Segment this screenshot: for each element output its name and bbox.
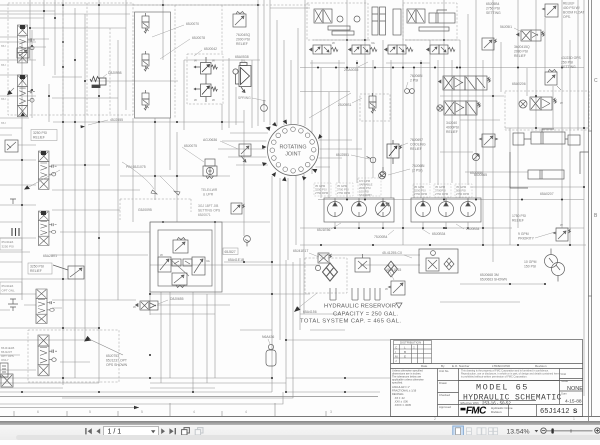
svg-text:RELIEF: RELIEF <box>410 147 422 151</box>
svg-text:FMC: FMC <box>465 406 487 417</box>
sheet right border <box>589 0 592 421</box>
view mode two continuous disabled <box>489 428 498 435</box>
svg-text:65J1237 OPT: 65J1237 OPT <box>106 359 127 363</box>
pump label box 1 <box>314 183 331 196</box>
sheet bottom outer edge <box>0 416 600 418</box>
svg-text:Sum: Sum <box>561 392 567 396</box>
gauge circle mid <box>261 100 268 111</box>
svg-text:65J0663 SHOWN: 65J0663 SHOWN <box>480 278 507 282</box>
winch diagonal line <box>170 259 189 276</box>
reservoir dashed boundary <box>305 258 347 293</box>
label 45-41255-CX <box>382 251 412 258</box>
cluster A crossed valve <box>314 9 332 23</box>
svg-text:LTR/ECO/NO: LTR/ECO/NO <box>492 364 511 368</box>
label 65J0042 <box>194 47 217 56</box>
valve jib setting <box>231 203 245 214</box>
svg-text:.XXX ± .006: .XXX ± .006 <box>394 400 408 404</box>
svg-text:VA: VA <box>371 41 375 45</box>
svg-text:W: W <box>133 305 136 309</box>
relief 65J05B4 labels <box>486 2 501 15</box>
left margin micro labels <box>1 346 14 362</box>
pilot valve 25J05S1 <box>338 98 362 107</box>
svg-text:C: C <box>594 78 598 84</box>
leader to stack C <box>24 170 60 190</box>
accumulator capsule <box>266 344 276 366</box>
prev page button <box>96 428 100 434</box>
zoom in button <box>595 428 600 433</box>
svg-text:AGJ0636: AGJ0636 <box>203 138 217 142</box>
scale cell <box>561 372 568 383</box>
dashed enclosure top left <box>8 3 310 118</box>
svg-text:4-15-88: 4-15-88 <box>565 399 582 405</box>
svg-text:Division: Division <box>491 410 502 414</box>
swing motor dashed box <box>505 91 589 130</box>
label 2GA0035 <box>344 62 368 72</box>
svg-text:W: W <box>332 41 335 45</box>
label 34J040 4000PSI RELIEF <box>446 121 459 134</box>
label D8J0998 <box>102 71 122 78</box>
svg-text:34J040: 34J040 <box>446 121 457 125</box>
valve stack V5 <box>38 335 57 376</box>
svg-text:65J0070: 65J0070 <box>186 22 199 26</box>
brake valve block upper <box>439 76 492 90</box>
svg-text:400 PSI W/: 400 PSI W/ <box>563 6 580 10</box>
label 76J0697 COOLING RELIEF <box>400 138 426 151</box>
label 9 GPM PRIORITY <box>518 232 555 241</box>
valve D8J0655 <box>133 301 158 310</box>
relief right of pin <box>239 144 251 162</box>
svg-text:3250 PSI: 3250 PSI <box>33 131 47 135</box>
label 65J2551 <box>336 153 369 159</box>
gauge 65J0565 <box>472 153 479 160</box>
rotating joint text <box>279 145 306 158</box>
svg-text:.XX ± .02: .XX ± .02 <box>394 396 405 400</box>
winch orifice pair <box>172 259 192 266</box>
pump P6 <box>461 199 476 217</box>
wire horizontals middle <box>0 200 586 329</box>
cooling relief 76J0697 <box>387 140 402 164</box>
suction valve <box>318 253 332 263</box>
bottom margin wire lower <box>0 392 283 404</box>
stack B bottom triangle <box>21 113 26 117</box>
wire horizontals top <box>0 5 588 190</box>
label 65J1E56 <box>317 223 341 232</box>
svg-text:ONLY: ONLY <box>1 358 9 362</box>
svg-text:65J: 65J <box>1 97 6 101</box>
first page button <box>85 428 92 434</box>
svg-text:Effective With: Effective With <box>461 401 480 405</box>
svg-text:4: 4 <box>245 410 247 414</box>
label 65J0078 <box>160 36 205 59</box>
winch relief bottom <box>172 273 187 288</box>
label SPRING <box>238 96 266 101</box>
relief 3bJ04I5Q <box>482 38 497 50</box>
reservoir strainer 1 <box>330 288 336 300</box>
svg-text:FRACTIONAL ± 1/16: FRACTIONAL ± 1/16 <box>392 389 417 393</box>
svg-text:2GA0035: 2GA0035 <box>344 68 358 72</box>
svg-text:5: 5 <box>141 410 143 414</box>
property notice microtext <box>461 370 561 379</box>
svg-text:25J05S1: 25J05S1 <box>338 103 351 107</box>
svg-text:W: W <box>385 287 388 291</box>
svg-text:65J2551: 65J2551 <box>336 153 349 157</box>
pump P1 <box>328 199 343 217</box>
svg-text:65J0042: 65J0042 <box>204 47 217 51</box>
effective with row <box>461 400 512 405</box>
label 65J0B34 <box>422 229 445 236</box>
svg-text:E: E <box>404 354 406 358</box>
svg-text:76J06BI: 76J06BI <box>410 74 422 78</box>
pump label box 5 <box>434 184 451 197</box>
svg-text:W: W <box>194 59 197 63</box>
relief boom float <box>543 4 559 17</box>
svg-text:65J: 65J <box>1 63 6 67</box>
pump label box 4 <box>413 184 430 197</box>
svg-text:76J0697: 76J0697 <box>410 138 423 142</box>
svg-text:250 PSI: 250 PSI <box>561 61 573 65</box>
dashed box lower left of joint <box>120 199 191 220</box>
svg-text:PRIORITY: PRIORITY <box>518 237 535 241</box>
label 75J00B4 <box>374 230 394 239</box>
rotating joint port ring <box>270 127 316 173</box>
svg-text:TOTAL SYSTEM CAP. = 465 GAL.: TOTAL SYSTEM CAP. = 465 GAL. <box>300 319 401 325</box>
svg-text:OPS SHOWN: OPS SHOWN <box>106 363 128 367</box>
accumulator tubes <box>372 7 401 35</box>
svg-text:BOOM FLOAT: BOOM FLOAT <box>563 10 584 14</box>
manifold tall box <box>135 12 171 118</box>
svg-text:G5J0095: G5J0095 <box>138 208 152 212</box>
pump label box 6 <box>455 184 472 197</box>
tolerance notes text <box>392 369 424 408</box>
reservoir strainer 3 <box>364 288 370 300</box>
rotating joint body <box>268 125 319 176</box>
svg-text:4: 4 <box>193 410 195 414</box>
reservoir leader arrow <box>294 293 317 312</box>
stack D solenoid cap <box>41 211 46 215</box>
bottom-left dashed enclosure <box>28 330 119 382</box>
svg-text:3: 3 <box>330 410 332 414</box>
pump label box 3 <box>358 178 381 197</box>
wire long leader to sheet edge <box>0 407 139 409</box>
label AGJ0636 <box>203 138 238 149</box>
left margin stub labels top <box>1 44 6 125</box>
label 3GJ JIB SETTING <box>198 204 221 217</box>
zoom out button <box>541 428 546 433</box>
cluster A gauges <box>337 16 360 22</box>
svg-text:D8J0998: D8J0998 <box>108 71 122 75</box>
hoist cylinder assembly upper <box>513 129 580 145</box>
svg-text:RELIEF: RELIEF <box>33 136 45 140</box>
bottom zone numbers <box>37 410 575 421</box>
label 45J41E15 <box>386 268 401 280</box>
svg-text:9 GPM: 9 GPM <box>518 232 529 236</box>
date cell <box>561 392 567 396</box>
svg-text:W: W <box>160 253 163 257</box>
svg-text:JOINT: JOINT <box>285 152 301 158</box>
priority valve <box>554 223 572 241</box>
relief 43J23D <box>545 70 561 91</box>
FMC logo <box>461 406 487 417</box>
svg-text:Unit: Unit <box>561 372 566 376</box>
bottom-left corner dark box <box>1 374 13 387</box>
svg-text:2 PSI: 2 PSI <box>410 79 418 83</box>
svg-text:ROTATING: ROTATING <box>279 145 306 151</box>
solenoid valve C <box>142 90 149 110</box>
svg-text:Revision: Revision <box>535 364 547 368</box>
svg-text:2750 PSI: 2750 PSI <box>486 7 500 11</box>
pump small gauge top <box>380 167 386 177</box>
svg-text:65A2B01: 65A2B01 <box>43 254 57 258</box>
label N6A436 <box>262 335 274 344</box>
pump P3 variable arrow <box>377 203 389 215</box>
svg-text:ANGULAR ± 1°: ANGULAR ± 1° <box>392 385 410 389</box>
relief 76J04SQ <box>233 12 246 28</box>
component D8J0998 <box>90 77 106 88</box>
filter diamond second <box>385 261 398 277</box>
winch valve left <box>158 253 171 272</box>
zone tick right margin <box>588 131 592 296</box>
svg-text:OPS.: OPS. <box>563 15 571 19</box>
svg-text:65J05B4: 65J05B4 <box>486 2 499 6</box>
svg-text:2000 PSI: 2000 PSI <box>236 38 250 42</box>
svg-text:NONE: NONE <box>567 386 583 392</box>
svg-text:3250 PSI: 3250 PSI <box>30 265 44 269</box>
svg-text:SETTING: SETTING <box>561 65 576 69</box>
relief label 3250 PSI lower <box>28 263 52 274</box>
label TELESCOPE UPR <box>201 188 218 197</box>
svg-text:MODEL 65: MODEL 65 <box>476 383 529 393</box>
reservoir strainer 2 <box>352 288 358 300</box>
svg-text:RELIEF: RELIEF <box>446 130 458 134</box>
valve stack C <box>39 151 57 189</box>
top right dashed cluster A <box>307 3 368 40</box>
valve 56J05I1 <box>517 30 546 41</box>
svg-text:2080 PSI: 2080 PSI <box>514 50 528 54</box>
svg-text:65A41E1B: 65A41E1B <box>228 258 245 262</box>
pump outlet stubs <box>335 222 468 228</box>
svg-text:65J0078: 65J0078 <box>192 36 205 40</box>
svg-text:D/L: D/L <box>241 59 246 63</box>
view mode continuous disabled <box>466 428 471 435</box>
svg-text:45-41255-CX: 45-41255-CX <box>382 251 403 255</box>
svg-text:DECIMAL:: DECIMAL: <box>392 392 405 396</box>
drawn checked approved cells <box>439 369 451 409</box>
svg-text:HYDRAULIC RESERVOIR: HYDRAULIC RESERVOIR <box>324 304 396 310</box>
reservoir strainer 4 <box>375 288 380 300</box>
label 76J06BI 2PSI lower <box>388 164 424 175</box>
svg-text:(2 PSI): (2 PSI) <box>412 169 423 173</box>
svg-text:65J0753: 65J0753 <box>106 354 119 358</box>
svg-text:OPT ONL: OPT ONL <box>2 289 15 293</box>
svg-text:N6A436: N6A436 <box>262 335 274 339</box>
svg-text:65J0075: 65J0075 <box>184 144 197 148</box>
wire verticals right section <box>321 0 584 396</box>
svg-text:2750 RPM: 2750 RPM <box>337 191 351 195</box>
pilot valve dashed box mid <box>360 94 390 121</box>
swing brake valve <box>519 97 563 110</box>
distribution table text <box>395 341 421 363</box>
label 65J0070 <box>152 22 199 37</box>
pump group right box <box>411 198 481 222</box>
hoist cylinder assembly lower <box>510 152 589 188</box>
svg-text:Approved: Approved <box>439 405 451 409</box>
svg-text:W: W <box>560 101 563 105</box>
bottom margin wire upper <box>62 378 293 398</box>
svg-text:3GJ 18FT JIB: 3GJ 18FT JIB <box>198 204 219 208</box>
pump P2 <box>352 199 367 217</box>
wire verticals left section <box>22 0 264 385</box>
bottom ruler ticks <box>14 403 326 416</box>
zoom slider <box>547 428 593 433</box>
svg-text:150 PSI: 150 PSI <box>524 265 536 269</box>
svg-text:RELIEF: RELIEF <box>563 2 575 6</box>
cluster A cylinder bars <box>328 26 354 35</box>
svg-text:65J: 65J <box>1 121 6 125</box>
long diagonal leader <box>309 93 351 118</box>
left edge check valve <box>5 140 18 152</box>
title block header row text <box>421 364 547 368</box>
svg-text:.XXXX ± .0005: .XXXX ± .0005 <box>394 403 412 407</box>
valve 65A0538 <box>233 59 251 93</box>
svg-text:43J23D OPS: 43J23D OPS <box>561 56 582 60</box>
svg-text:2750 RPM: 2750 RPM <box>315 191 329 195</box>
svg-text:W: W <box>194 98 197 102</box>
cluster B cylinder <box>419 10 455 31</box>
pilot valve symbol mid <box>369 93 376 113</box>
svg-text:2750 RPM: 2750 RPM <box>456 192 470 196</box>
pump group left box <box>324 198 394 222</box>
label D8J0655 <box>158 297 184 304</box>
svg-text:STANDBY: STANDBY <box>359 193 372 197</box>
valve top-left corner <box>17 48 29 58</box>
label 65J827 boxed <box>223 248 238 255</box>
svg-text:6: 6 <box>37 410 39 414</box>
solenoid valve B <box>142 51 149 71</box>
view mode single selected <box>453 426 464 437</box>
svg-text:65J1E56: 65J1E56 <box>317 228 330 232</box>
label 25J0B34 <box>456 224 479 231</box>
label 65J0075 <box>182 144 204 162</box>
directional valve row VA <box>349 41 378 54</box>
svg-text:RELIEF: RELIEF <box>236 42 248 46</box>
check pair circles <box>405 89 415 94</box>
wire verticals center section <box>161 0 312 392</box>
svg-text:is prohibited without written: is prohibited without written permission… <box>461 376 528 379</box>
svg-text:10 GPM: 10 GPM <box>524 260 537 264</box>
svg-text:Drawn: Drawn <box>439 381 448 385</box>
svg-text:PIN 65J1075: PIN 65J1075 <box>126 165 146 169</box>
zoom dropdown arrow <box>535 430 539 432</box>
svg-text:S: S <box>573 408 578 415</box>
svg-text:65J0668 3M: 65J0668 3M <box>480 273 499 277</box>
svg-text:□: □ <box>413 345 415 349</box>
leader PIN 65J1075 <box>122 162 180 195</box>
svg-text:RELIEF: RELIEF <box>30 269 42 273</box>
sheet bottom border line <box>0 396 378 398</box>
last page button <box>169 428 176 434</box>
svg-text:65A0207: 65A0207 <box>540 192 554 196</box>
directional valve row 3 <box>385 45 414 54</box>
comb connector left <box>12 228 19 236</box>
svg-text:B: B <box>404 350 406 354</box>
svg-text:W: W <box>560 223 563 227</box>
left edge tandem tees <box>8 199 18 311</box>
svg-text:Checked: Checked <box>439 393 450 397</box>
svg-text:Date: Date <box>421 364 428 368</box>
winch valve right <box>192 257 210 275</box>
svg-text:& UPR: & UPR <box>203 193 214 197</box>
valve 65J0075 <box>203 159 217 179</box>
svg-text:specified.: specified. <box>392 381 403 385</box>
bypass valve small <box>385 281 405 295</box>
svg-text:CAPACITY = 250 GAL.: CAPACITY = 250 GAL. <box>333 312 398 318</box>
pump P3 <box>376 199 391 217</box>
valve stack D <box>39 211 57 246</box>
label 56J05I1 <box>500 25 522 32</box>
svg-text:1750 PSI: 1750 PSI <box>512 214 526 218</box>
label relief 400 psi boom float <box>563 2 584 19</box>
svg-text:75J00B4: 75J00B4 <box>374 235 387 239</box>
view mode two pages disabled <box>477 428 486 435</box>
left margin boxed label lower <box>0 282 22 294</box>
svg-text:SPRING: SPRING <box>238 96 251 100</box>
valve stack V4 <box>36 289 55 324</box>
svg-text:By: By <box>441 364 445 368</box>
filter diamond main <box>323 263 338 281</box>
svg-text:76J04SQ: 76J04SQ <box>236 33 250 37</box>
svg-text:65J827: 65J827 <box>225 250 236 254</box>
svg-text:2750 RPM: 2750 RPM <box>414 192 428 196</box>
svg-text:65J: 65J <box>1 44 6 48</box>
svg-text:65J41E6: 65J41E6 <box>2 240 14 244</box>
label 65J41E1T <box>293 249 319 257</box>
directional valve row W <box>310 41 339 54</box>
svg-text:65J0556: 65J0556 <box>470 171 483 175</box>
winch relief top <box>173 238 188 254</box>
relief label 3250 PSI upper <box>31 130 57 141</box>
gauge above 65J827 <box>244 236 251 247</box>
leader arrowhead <box>134 406 139 410</box>
facing pages icon disabled <box>195 428 203 435</box>
pump label box 2 <box>336 183 353 196</box>
label 1750 PSI RELIEF <box>512 214 526 223</box>
gauge 76J06BI <box>379 172 386 179</box>
svg-text:65J41E1T: 65J41E1T <box>293 249 308 253</box>
stack A solenoid cap <box>20 25 25 29</box>
stack B solenoid cap <box>20 75 25 79</box>
top right dashed cluster B <box>403 3 457 40</box>
svg-text:RELIEF: RELIEF <box>514 54 526 58</box>
top left corner arrow <box>7 88 14 95</box>
svg-text:3bJ0415Q: 3bJ0415Q <box>514 45 530 49</box>
svg-text:65A0206: 65A0206 <box>512 82 526 86</box>
pilot valve dashed enclosure <box>187 54 223 104</box>
svg-text:TELE/LWR: TELE/LWR <box>201 188 218 192</box>
svg-text:SETTING: SETTING <box>486 11 501 15</box>
winch module outer box <box>150 222 222 292</box>
svg-text:56J05I1: 56J05I1 <box>500 25 512 29</box>
next page button <box>161 428 165 434</box>
gauge 65J2551 <box>367 157 376 163</box>
svg-text:65J41E6: 65J41E6 <box>2 284 14 288</box>
label 3bJ04I5Q 2080 PSI RELIEF <box>514 45 530 58</box>
label 76J06BI 2 PSI <box>406 74 422 88</box>
brake valve block lower <box>437 101 481 115</box>
svg-text:VA: VA <box>206 259 210 263</box>
relief 34J040 <box>480 134 498 147</box>
left bottom connector box <box>0 363 8 377</box>
return manifold box <box>419 249 458 273</box>
